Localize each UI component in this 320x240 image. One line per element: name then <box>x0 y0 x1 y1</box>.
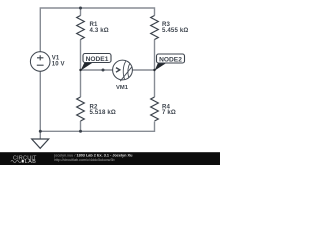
footer bar <box>0 152 220 165</box>
resistor R3 <box>151 16 189 40</box>
wire left column between R1 and R2 <box>80 40 82 98</box>
junction dot at NODE1 tail <box>79 69 81 71</box>
svg-text:5.455 kΩ: 5.455 kΩ <box>162 27 188 34</box>
ground <box>32 139 49 148</box>
wire bottom rail with right corner rise and left lower wire <box>40 71 154 131</box>
voltage source V1 <box>30 52 64 72</box>
resistor R4 <box>151 97 176 121</box>
footer logo square <box>22 160 24 163</box>
junction dot top of R1 <box>79 7 82 10</box>
svg-text:VM1: VM1 <box>116 85 129 91</box>
wire middle left segment NODE1 to voltmeter <box>81 69 113 71</box>
junction dot bottom of R2 <box>79 130 82 133</box>
node flag NODE1 <box>81 54 111 71</box>
junction dot ground <box>39 130 42 133</box>
resistor R1 <box>77 16 109 40</box>
resistor R2 <box>77 97 116 121</box>
svg-text:5.518 kΩ: 5.518 kΩ <box>90 109 116 116</box>
wire middle right segment voltmeter to NODE2 <box>132 69 154 71</box>
node flag NODE2 <box>155 54 185 71</box>
svg-text:NODE2: NODE2 <box>159 56 182 63</box>
voltmeter VM1 <box>113 60 133 91</box>
svg-text:10 V: 10 V <box>52 62 65 68</box>
junction dot middle wire <box>102 69 105 72</box>
wire right column between R3 and R4 <box>154 40 156 98</box>
junction dot at NODE2 tail <box>153 69 155 71</box>
wire left column R2 bottom lead <box>80 121 82 131</box>
svg-text:4.3 kΩ: 4.3 kΩ <box>90 27 109 34</box>
svg-text:NODE1: NODE1 <box>86 56 109 63</box>
svg-text:LAB: LAB <box>25 159 37 165</box>
svg-text:7 kΩ: 7 kΩ <box>162 109 176 116</box>
wire left column R1 top lead <box>80 8 82 16</box>
wire top rail with left and right corner drops <box>40 8 154 52</box>
svg-text:http://circuitlab.com/c/4ddc5u: http://circuitlab.com/c/4ddc5ukuxw3b <box>54 158 114 162</box>
footer logo squiggle <box>11 160 21 162</box>
wire ground stub <box>39 131 41 139</box>
